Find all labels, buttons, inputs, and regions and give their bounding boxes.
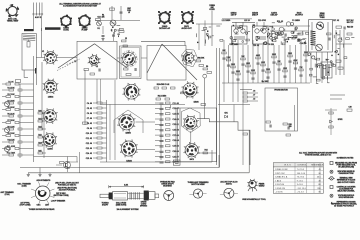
svg-text:1 AV-6: 1 AV-6 — [275, 179, 282, 182]
detector small parts — [270, 23, 288, 45]
svg-text:C10 .00: C10 .00 — [86, 133, 92, 135]
svg-text:USE NON-METALLIC TOOL: USE NON-METALLIC TOOL — [242, 198, 267, 201]
svg-text:LOOP TRIMMER: LOOP TRIMMER — [51, 201, 66, 203]
right strip labels — [222, 19, 339, 47]
svg-text:60 CYC: 60 CYC — [347, 22, 354, 24]
svg-text:C18 .04: C18 .04 — [173, 139, 179, 142]
svg-text:(BOTTOM CORE): (BOTTOM CORE) — [54, 195, 69, 197]
svg-text:R6 210K: R6 210K — [7, 113, 15, 115]
component above staircase — [201, 104, 206, 106]
parts table text — [275, 164, 324, 194]
vertical label on loop lead — [35, 68, 37, 74]
cathode cap and ground — [102, 26, 104, 34]
antenna terminals — [32, 13, 34, 15]
resistor R14 — [203, 152, 208, 154]
svg-text:C5 .03: C5 .03 — [87, 108, 92, 110]
component top right corner — [347, 109, 352, 111]
wire ground stub — [39, 168, 41, 174]
svg-text:C21 .07: C21 .07 — [173, 156, 179, 158]
shield tent lines T4 — [147, 44, 162, 73]
svg-text:V-1: V-1 — [97, 28, 100, 30]
adjustment socket diagram — [31, 182, 54, 205]
svg-text:9 35W-120: 9 35W-120 — [275, 188, 286, 190]
label LOOP strip — [24, 29, 34, 31]
svg-text:12BA6 IF-1 A: 12BA6 IF-1 A — [275, 176, 288, 179]
line cord components — [336, 26, 342, 28]
svg-text:CONTROL: CONTROL — [297, 165, 306, 167]
svg-text:R9 500K: R9 500K — [7, 133, 15, 135]
svg-text:5: 5 — [118, 36, 119, 38]
svg-text:R8 470K: R8 470K — [198, 57, 205, 60]
svg-text:R12 790K: R12 790K — [7, 152, 16, 154]
shield box around V2 — [120, 46, 142, 79]
svg-text:BOTTOM VIEW: BOTTOM VIEW — [191, 184, 204, 186]
parts on box1 right edge — [122, 40, 127, 42]
svg-text:W. K. S: W. K. S — [284, 165, 291, 167]
tube V2 12BA6 1st IF — [43, 79, 59, 94]
IF transformer can box T1 — [77, 41, 117, 79]
grid capacitor C4 — [113, 32, 115, 41]
svg-text:R24: R24 — [38, 141, 41, 144]
svg-text:C11 .00: C11 .00 — [173, 103, 179, 105]
trimmer capacitor cluster top — [97, 21, 102, 26]
svg-text:1/4 ALIGNMENT SYSTEM: 1/4 ALIGNMENT SYSTEM — [117, 208, 139, 211]
svg-text:C30: C30 — [349, 107, 352, 109]
wire vertical pair x214 — [215, 48, 217, 165]
volume control R15 — [4, 101, 9, 106]
svg-text:OSC: OSC — [36, 204, 41, 206]
wire center verticals — [160, 105, 162, 160]
wires below rectifier box — [310, 52, 312, 83]
wire antenna down-leads — [33, 16, 35, 32]
wire V8 to string — [136, 121, 156, 123]
svg-text:R1 0K: R1 0K — [8, 81, 14, 83]
svg-text:R10 .02: R10 .02 — [277, 21, 283, 23]
svg-text:L6 10: L6 10 — [285, 39, 290, 41]
svg-text:2ND IF: 2ND IF — [252, 15, 259, 17]
switch S1 — [4, 146, 9, 151]
ground V1 cathode — [101, 38, 104, 41]
components right of V5 — [196, 60, 201, 62]
svg-text:TUNER SHOWN FROM REAR: TUNER SHOWN FROM REAR — [29, 208, 55, 211]
svg-text:R10 50K: R10 50K — [7, 139, 15, 141]
wire V10 to V11 — [190, 131, 192, 143]
wire B- segment — [34, 156, 78, 158]
svg-text:C13 .00: C13 .00 — [86, 148, 92, 150]
wire top bus 2 — [232, 21, 255, 23]
svg-text:(C1A): (C1A) — [5, 193, 10, 196]
svg-text:.07: .07 — [253, 95, 256, 97]
svg-text:AND OUTPUT POINTS: AND OUTPUT POINTS — [337, 181, 355, 184]
svg-text:RESISTANCE: RESISTANCE — [311, 164, 324, 167]
svg-text:C23 470K: C23 470K — [258, 19, 267, 22]
svg-text:CONV.: CONV. — [63, 30, 69, 32]
wire bus y89 — [240, 88, 252, 90]
tube base diagram 12BA6 — [78, 14, 91, 28]
tube V6 audio output 50C5 — [123, 83, 141, 101]
loop antenna L1 — [22, 34, 36, 71]
svg-text:CONV: CONV — [209, 9, 215, 11]
svg-text:OR LINE (THIS LINE): OR LINE (THIS LINE) — [338, 167, 354, 169]
tube V1 oscillator section — [88, 54, 101, 67]
svg-text:C7 .00: C7 .00 — [87, 118, 92, 120]
svg-text:SCHEMATIC NOTES: SCHEMATIC NOTES — [337, 156, 354, 159]
svg-text:R3 740K: R3 740K — [7, 94, 15, 96]
wire y102 horizontal — [218, 104, 250, 106]
svg-text:L3: L3 — [128, 12, 130, 14]
capacitor inside loop — [27, 42, 30, 48]
svg-text:73.2 8.0: 73.2 8.0 — [297, 177, 305, 179]
ground 1 — [27, 173, 30, 176]
svg-text:12BT OSC: 12BT OSC — [275, 173, 285, 175]
svg-text:(SEE NOTE): (SEE NOTE) — [116, 205, 127, 207]
legend item 3 symbol — [330, 177, 334, 181]
alignment view socket B — [220, 188, 238, 198]
output grid parts — [291, 22, 307, 44]
svg-text:C16 220: C16 220 — [300, 43, 307, 45]
T3 slug arrows and parts — [253, 24, 274, 45]
svg-text:50C5: 50C5 — [190, 159, 194, 161]
wire mid horizontal — [100, 103, 185, 105]
svg-text:C14 .03: C14 .03 — [173, 118, 179, 121]
wire V1 signal path — [36, 57, 44, 59]
ground 2 — [38, 173, 41, 176]
svg-text:ADJUST FOR MAX.: ADJUST FOR MAX. — [59, 189, 76, 192]
pilot lamp circle — [316, 44, 323, 51]
svg-text:L2: L2 — [96, 66, 98, 68]
tube base diagram 12AV6 — [158, 11, 171, 24]
svg-text:12BA6: 12BA6 — [48, 96, 53, 99]
svg-text:FOR MAX. AT 455 KC: FOR MAX. AT 455 KC — [58, 184, 77, 187]
tube V11 AF amp — [184, 142, 200, 158]
dashed tuning shaft line — [57, 61, 76, 71]
wire staircase to output — [197, 119, 250, 165]
wire V11 plate — [198, 152, 216, 154]
tube V8 FM converter — [117, 113, 135, 131]
tube V9 FM IF — [120, 140, 138, 158]
svg-text:C4 .00: C4 .00 — [87, 102, 92, 105]
wire rectifier internals — [311, 22, 313, 50]
IF transformer T2 — [232, 26, 248, 44]
legend item 2 symbol — [330, 170, 333, 173]
volume control pot R12 — [286, 22, 290, 26]
svg-text:100.1 4.0: 100.1 4.0 — [297, 173, 306, 175]
svg-text:SPKR: SPKR — [338, 119, 343, 121]
extra parts det-output gap — [270, 31, 309, 45]
parts right edge of rect box — [327, 33, 332, 35]
filter choke winding — [311, 31, 316, 45]
transistor mini circuit — [56, 162, 78, 169]
legend item 5 symbol — [330, 194, 333, 197]
component row y88 — [154, 87, 159, 89]
svg-text:R2 370K: R2 370K — [7, 87, 15, 89]
oscillator coil components in T1 — [84, 69, 89, 71]
svg-text:T5: T5 — [326, 60, 328, 62]
shield blob around V5 top — [182, 50, 198, 67]
svg-text:C20 .00: C20 .00 — [173, 151, 179, 153]
svg-text:B+ 105V: B+ 105V — [262, 81, 270, 83]
output transformer parts — [314, 58, 331, 83]
svg-text:(TOP CORE): (TOP CORE) — [20, 204, 31, 206]
svg-text:R22: R22 — [38, 126, 41, 128]
wire top of T4 — [141, 40, 185, 42]
wire bottom bus 1 — [100, 161, 212, 163]
components right mid — [283, 123, 288, 125]
svg-text:OUTPUT: OUTPUT — [295, 15, 304, 17]
filter capacitor on bus — [173, 160, 180, 165]
svg-text:455 KC: 455 KC — [226, 182, 233, 185]
far right horizontals — [330, 94, 345, 96]
component cluster top x110 — [111, 6, 113, 20]
legend item 1 symbol — [330, 162, 333, 165]
alignment view socket A — [189, 189, 206, 198]
left ladder labels — [7, 81, 16, 154]
tuner shaft drawing — [100, 191, 159, 201]
far right components — [336, 60, 341, 62]
svg-text:22: 22 — [125, 38, 127, 40]
svg-text:1ST IF: 1ST IF — [231, 15, 237, 17]
svg-text:R10 470K C9 .02: R10 470K C9 .02 — [157, 83, 169, 86]
svg-text:C6 220: C6 220 — [268, 44, 274, 46]
coupling cap C14 — [294, 28, 296, 31]
phono section box — [265, 88, 298, 131]
svg-text:C9 .06: C9 .06 — [87, 128, 92, 130]
left component ladder — [2, 83, 34, 156]
svg-text:8 50C5-M: 8 50C5-M — [275, 184, 284, 186]
tube base diagram 12BE6 — [60, 15, 72, 28]
wire transistor drops — [67, 157, 69, 173]
label EXT ANT strip — [45, 27, 61, 30]
svg-text:(C1B): (C1B) — [22, 185, 27, 187]
svg-text:A B C D: A B C D — [35, 16, 42, 19]
svg-text:C16 .08: C16 .08 — [173, 130, 179, 132]
svg-text:-13.1 13.0: -13.1 13.0 — [297, 188, 307, 190]
svg-text:TERM. VIEW: TERM. VIEW — [7, 21, 18, 23]
svg-text:CHASSIS BOTTOM: CHASSIS BOTTOM — [339, 172, 354, 175]
wire converter plate leads — [204, 20, 206, 46]
svg-text:12BA6: 12BA6 — [193, 101, 198, 104]
svg-text:WAND: WAND — [259, 185, 265, 188]
svg-text:R7 580K: R7 580K — [7, 120, 15, 122]
IF transformer can box T4 — [147, 46, 186, 81]
svg-text:-7.4 4.3: -7.4 4.3 — [297, 192, 305, 194]
svg-text:C15 .06: C15 .06 — [86, 158, 92, 160]
svg-text:C6 .06: C6 .06 — [87, 113, 92, 115]
output section box — [176, 108, 217, 162]
rectifier section box — [309, 20, 333, 53]
converter plate components — [197, 26, 223, 44]
right section vertical wires — [224, 40, 306, 102]
wire x243 lower — [242, 83, 244, 165]
shield tent around V8 — [114, 110, 143, 133]
svg-text:PHONO MOTOR: PHONO MOTOR — [274, 90, 288, 92]
svg-text:C15 .01: C15 .01 — [173, 124, 179, 126]
svg-text:R25: R25 — [38, 150, 41, 152]
svg-text:R21: R21 — [38, 118, 41, 120]
svg-text:HOLD WITHIN 20%: HOLD WITHIN 20% — [339, 197, 354, 199]
wire antenna leads — [33, 3, 35, 15]
svg-text:AT SAMS PHOTOFACT: AT SAMS PHOTOFACT — [334, 205, 355, 208]
wire left bus B — [41, 62, 43, 130]
knob end view — [164, 191, 174, 201]
parts table — [273, 163, 323, 194]
far right small parts — [334, 33, 354, 59]
wire loop to converter — [23, 70, 25, 78]
wire left bus C — [19, 84, 21, 158]
on-off switch cluster — [338, 38, 342, 42]
padder trimmer cluster — [111, 26, 123, 35]
svg-text:V1: V1 — [42, 51, 44, 53]
svg-text:C19 .02: C19 .02 — [173, 146, 179, 148]
output transformer cluster — [321, 62, 332, 78]
tube socket wafer bottom view — [6, 4, 19, 17]
svg-text:7.0 70.5: 7.0 70.5 — [297, 169, 305, 171]
svg-text:.02: .02 — [253, 99, 256, 101]
svg-text:A CHASSIS BOTTOM OR SOCKET KEY: A CHASSIS BOTTOM OR SOCKET KEY — [63, 5, 98, 8]
speaker output cluster — [325, 108, 337, 135]
dimension line — [109, 186, 144, 188]
wire bottom bus 3 — [28, 172, 249, 174]
AVC node circle — [203, 74, 207, 78]
components under V2 in shield box — [124, 68, 129, 70]
wire interstage vertical — [43, 110, 45, 158]
svg-text:SELECTED CHANNEL: SELECTED CHANNEL — [337, 190, 355, 193]
components left of V7 — [181, 92, 185, 94]
component below loop — [16, 80, 21, 83]
svg-text:-1 60 85: -1 60 85 — [275, 192, 283, 194]
rectifier tube V6 35W4 — [316, 22, 323, 29]
bias resistor — [60, 162, 65, 164]
coupling component x85 — [83, 122, 88, 124]
svg-text:IF AMP: IF AMP — [81, 29, 88, 32]
alignment tool symbol — [247, 179, 257, 192]
tube V1 12BE6 converter — [43, 50, 58, 64]
svg-text:C13 .05: C13 .05 — [173, 114, 179, 116]
inter-stage parts column — [38, 110, 46, 154]
svg-text:12BE6: 12BE6 — [125, 133, 130, 135]
wire AVC vertical — [204, 78, 206, 119]
T2 slug arrows and parts — [230, 25, 250, 44]
wire V9 to string — [137, 149, 155, 151]
tube V10 ratio detector — [183, 115, 199, 131]
svg-text:R21 150: R21 150 — [347, 27, 353, 29]
wire bottom bus 2 — [20, 167, 219, 169]
svg-text:220: 220 — [289, 126, 292, 128]
svg-text:12BE6 CONV: 12BE6 CONV — [275, 169, 288, 171]
tone control R16 — [4, 127, 9, 132]
tube V5 12AV6 triode — [182, 51, 196, 65]
shield diamond around V10 — [182, 108, 201, 133]
svg-text:R20: R20 — [38, 110, 41, 112]
svg-text:R11 1 MEG: R11 1 MEG — [158, 96, 167, 98]
svg-text:L11 1MEG: L11 1MEG — [222, 20, 231, 22]
tone switch cluster — [243, 91, 258, 102]
svg-text:C12 .07: C12 .07 — [173, 108, 179, 110]
diode detector cluster — [272, 27, 275, 31]
svg-text:C12 .06: C12 .06 — [86, 143, 92, 145]
wire mid verticals — [106, 100, 108, 162]
shield tent lines T1 — [58, 44, 95, 68]
ground 3 — [48, 173, 51, 176]
wire top bus 1 — [222, 18, 252, 20]
svg-text:C27 .02: C27 .02 — [333, 20, 339, 22]
wire runs det to output — [262, 25, 310, 27]
svg-text:L23 10: L23 10 — [244, 20, 250, 22]
svg-text:9.1 3.5: 9.1 3.5 — [297, 180, 304, 182]
wire osc horizontal — [95, 19, 140, 21]
tube base diagram 50C5 — [181, 11, 194, 24]
tube V4 12AV6 det-AF — [42, 132, 57, 147]
svg-text:DET-AVC-AF: DET-AVC-AF — [159, 27, 171, 30]
svg-text:R23: R23 — [38, 134, 41, 136]
tube V3 12BA6 2nd IF — [42, 108, 57, 124]
B+ bus line — [222, 82, 310, 84]
legend item 4 symbol — [330, 186, 333, 189]
svg-text:DET-AF: DET-AF — [271, 14, 279, 17]
tuning capacitor C1 — [110, 20, 116, 26]
svg-text:SHAFT: SHAFT — [102, 203, 109, 206]
svg-text:C3 1MEG: C3 1MEG — [292, 20, 300, 22]
mid component block — [86, 102, 107, 160]
svg-text:12AV6: 12AV6 — [47, 148, 52, 151]
svg-text:.03: .03 — [253, 91, 256, 93]
svg-text:BUSHING: BUSHING — [163, 186, 172, 188]
svg-text:VTVM NO SIGNAL LINE 117V AC: VTVM NO SIGNAL LINE 117V AC — [305, 153, 332, 156]
svg-text:3.4 0.5: 3.4 0.5 — [297, 184, 304, 186]
IF transformer T3 — [253, 26, 269, 44]
svg-text:R28 1MEG: R28 1MEG — [230, 44, 239, 46]
svg-text:R5 660K: R5 660K — [7, 107, 15, 109]
wire left bus A — [33, 56, 35, 162]
svg-text:SPRING: SPRING — [140, 206, 148, 208]
right section components — [222, 50, 309, 80]
diode CR1 — [225, 115, 228, 118]
svg-text:C17 .06: C17 .06 — [173, 135, 179, 137]
svg-text:C14 .03: C14 .03 — [86, 152, 92, 155]
tube V2 shielded 12BA6 — [121, 51, 137, 67]
svg-text:C11 .03: C11 .03 — [86, 138, 92, 140]
parts below rectifier box — [308, 53, 336, 80]
svg-text:R9: R9 — [206, 66, 208, 68]
center capacitor string — [155, 102, 179, 164]
svg-text:AUDIO OUT: AUDIO OUT — [181, 27, 192, 30]
tube V7 rectifier 35W4 — [181, 81, 198, 98]
svg-text:TUBE: TUBE — [319, 17, 325, 19]
component row y99 — [156, 98, 161, 100]
wire box1 drop wires — [96, 79, 98, 103]
far right wires — [335, 30, 337, 75]
svg-text:R14: R14 — [205, 149, 208, 152]
wire from AM converter label — [211, 11, 213, 47]
svg-text:CR1: CR1 — [224, 113, 227, 115]
